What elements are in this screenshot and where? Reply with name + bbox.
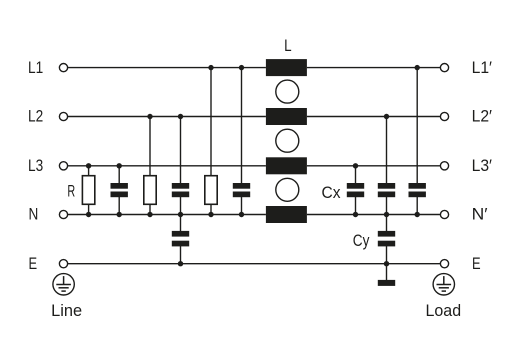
node C3-L1 bbox=[239, 65, 244, 70]
svg-text:L2′: L2′ bbox=[472, 107, 492, 126]
svg-text:L1: L1 bbox=[28, 58, 43, 77]
capacitor Cx1 wire top bbox=[355, 166, 357, 184]
choke core circle 3 bbox=[276, 178, 299, 201]
terminal L1 bbox=[59, 64, 67, 72]
choke core circle 1 bbox=[276, 80, 299, 103]
svg-text:L2: L2 bbox=[28, 107, 43, 126]
capacitor Cy plate top bbox=[378, 231, 395, 237]
resistor R2 wire bottom bbox=[149, 204, 151, 215]
capacitor C2 plate bottom bbox=[172, 192, 189, 198]
svg-text:E: E bbox=[29, 254, 38, 273]
terminal N' bbox=[440, 210, 448, 218]
wire L3 left segment bbox=[68, 165, 266, 167]
node Cy-E bbox=[384, 261, 389, 266]
resistor R3 body bbox=[205, 176, 217, 205]
capacitor Cx2 wire bottom bbox=[386, 197, 388, 215]
terminal L2 bbox=[59, 112, 67, 120]
chassis plate bbox=[378, 280, 395, 286]
capacitor C3 plate bottom bbox=[233, 192, 250, 198]
chassis stub wire below E bbox=[386, 264, 388, 281]
terminal L3 bbox=[59, 162, 67, 170]
resistor R3 wire top bbox=[210, 68, 212, 176]
wire L2 left segment bbox=[68, 116, 266, 118]
capacitor Cx1 wire bottom bbox=[355, 197, 357, 215]
resistor R3 wire bottom bbox=[210, 204, 212, 215]
node Cx1-L3' bbox=[353, 163, 358, 168]
capacitor C2 wire top bbox=[180, 117, 182, 184]
svg-text:E: E bbox=[472, 254, 481, 273]
capacitor Cx1 plate top bbox=[347, 183, 364, 189]
svg-text:L3: L3 bbox=[28, 156, 43, 175]
capacitor Cx2 wire top bbox=[386, 117, 388, 184]
resistor R2 wire top bbox=[149, 117, 151, 177]
node C2-L2 bbox=[178, 114, 183, 119]
capacitor Cy plate bottom bbox=[378, 241, 395, 247]
capacitor N-E plate bottom bbox=[172, 241, 189, 247]
node C2-N bbox=[178, 212, 183, 217]
node R2-L2 bbox=[147, 114, 152, 119]
terminal E line-side bbox=[59, 260, 67, 268]
choke L winding L2 bbox=[266, 108, 307, 125]
capacitor C2 wire bottom bbox=[180, 197, 182, 215]
wire N right segment bbox=[307, 214, 440, 216]
svg-text:L1′: L1′ bbox=[472, 58, 492, 77]
wire L3 right segment bbox=[307, 165, 440, 167]
capacitor Cx3 wire top bbox=[416, 68, 418, 184]
svg-text:L: L bbox=[284, 36, 292, 55]
capacitor C1 wire top bbox=[118, 166, 120, 184]
choke L winding N bbox=[266, 206, 307, 223]
capacitor C1 wire bottom bbox=[118, 197, 120, 215]
capacitor N-E wire top bbox=[180, 215, 182, 232]
wire L1 right segment bbox=[307, 67, 440, 69]
node Cx2-L2' bbox=[384, 114, 389, 119]
terminal L2' bbox=[440, 112, 448, 120]
node Cx3-N' bbox=[415, 212, 420, 217]
capacitor C1 plate top bbox=[111, 183, 128, 189]
capacitor Cx2 plate top bbox=[378, 183, 395, 189]
node C1-N bbox=[117, 212, 122, 217]
choke L winding L3 bbox=[266, 157, 307, 174]
capacitor Cy wire top bbox=[386, 215, 388, 232]
svg-text:R: R bbox=[67, 182, 75, 201]
capacitor Cx2 plate bottom bbox=[378, 192, 395, 198]
resistor R1 wire top bbox=[88, 166, 90, 176]
choke core circle 2 bbox=[276, 129, 299, 152]
wire L2 right segment bbox=[307, 116, 440, 118]
svg-text:Load: Load bbox=[426, 301, 462, 320]
svg-text:Line: Line bbox=[51, 301, 82, 320]
terminal N bbox=[59, 210, 67, 218]
svg-text:Cx: Cx bbox=[322, 183, 341, 202]
resistor R1 body bbox=[82, 176, 94, 205]
resistor R2 body bbox=[144, 176, 156, 205]
node C1-L3 bbox=[117, 163, 122, 168]
capacitor C3 plate top bbox=[233, 183, 250, 189]
svg-text:Cy: Cy bbox=[353, 231, 370, 250]
terminal E load-side bbox=[440, 260, 448, 268]
node R2-N bbox=[147, 212, 152, 217]
node Cx2-N' bbox=[384, 212, 389, 217]
svg-text:N′: N′ bbox=[472, 205, 488, 224]
wire L1 left segment bbox=[68, 67, 266, 69]
capacitor Cx1 plate bottom bbox=[347, 192, 364, 198]
node C3-N bbox=[239, 212, 244, 217]
capacitor C3 wire bottom bbox=[241, 197, 243, 215]
resistor R1 wire bottom bbox=[88, 204, 90, 215]
capacitor N-E plate top bbox=[172, 231, 189, 237]
capacitor C3 wire top bbox=[241, 68, 243, 184]
terminal L3' bbox=[440, 162, 448, 170]
capacitor C1 plate bottom bbox=[111, 192, 128, 198]
ground symbol Load side bbox=[433, 274, 454, 295]
capacitor Cx3 plate top bbox=[409, 183, 426, 189]
svg-text:N: N bbox=[29, 205, 39, 224]
capacitor Cx3 wire bottom bbox=[416, 197, 418, 215]
node R1-L3 bbox=[86, 163, 91, 168]
node NE-E bbox=[178, 261, 183, 266]
svg-text:L3′: L3′ bbox=[472, 156, 492, 175]
wire N left segment bbox=[68, 214, 266, 216]
node Cx3-L1' bbox=[415, 65, 420, 70]
node R3-L1 bbox=[208, 65, 213, 70]
wire E full segment bbox=[68, 263, 441, 265]
node Cx1-N' bbox=[353, 212, 358, 217]
capacitor Cy wire bottom bbox=[386, 246, 388, 264]
ground symbol Line side bbox=[53, 274, 74, 295]
terminal L1' bbox=[440, 64, 448, 72]
capacitor C2 plate top bbox=[172, 183, 189, 189]
capacitor Cx3 plate bottom bbox=[409, 192, 426, 198]
capacitor N-E wire bottom bbox=[180, 246, 182, 264]
choke L winding L1 bbox=[266, 59, 307, 76]
node R3-N bbox=[208, 212, 213, 217]
node R1-N bbox=[86, 212, 91, 217]
